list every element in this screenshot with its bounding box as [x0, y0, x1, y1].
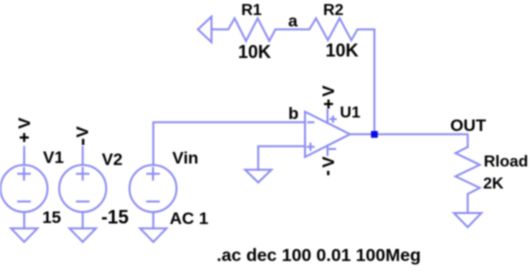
svg-text:V: V [15, 117, 34, 129]
svg-text:10K: 10K [326, 41, 359, 61]
svg-text:AC 1: AC 1 [170, 209, 209, 228]
svg-text:U1: U1 [340, 105, 361, 122]
svg-text:V1: V1 [43, 148, 64, 167]
svg-text:2K: 2K [483, 176, 504, 193]
svg-text:Vin: Vin [172, 149, 198, 168]
svg-text:OUT: OUT [450, 116, 487, 135]
svg-text:V: V [319, 156, 338, 168]
svg-text:.ac dec 100 0.01 100Meg: .ac dec 100 0.01 100Meg [217, 245, 421, 265]
svg-text:V2: V2 [102, 150, 123, 169]
svg-text:R2: R2 [323, 2, 344, 19]
svg-text:V: V [73, 126, 92, 138]
svg-text:a: a [288, 11, 298, 30]
svg-text:V: V [319, 85, 338, 97]
svg-text:-15: -15 [101, 207, 129, 228]
svg-text:10K: 10K [238, 42, 271, 62]
svg-text:b: b [288, 104, 298, 123]
svg-text:Rload: Rload [484, 153, 528, 170]
svg-text:R1: R1 [241, 2, 262, 19]
svg-text:15: 15 [42, 208, 61, 227]
